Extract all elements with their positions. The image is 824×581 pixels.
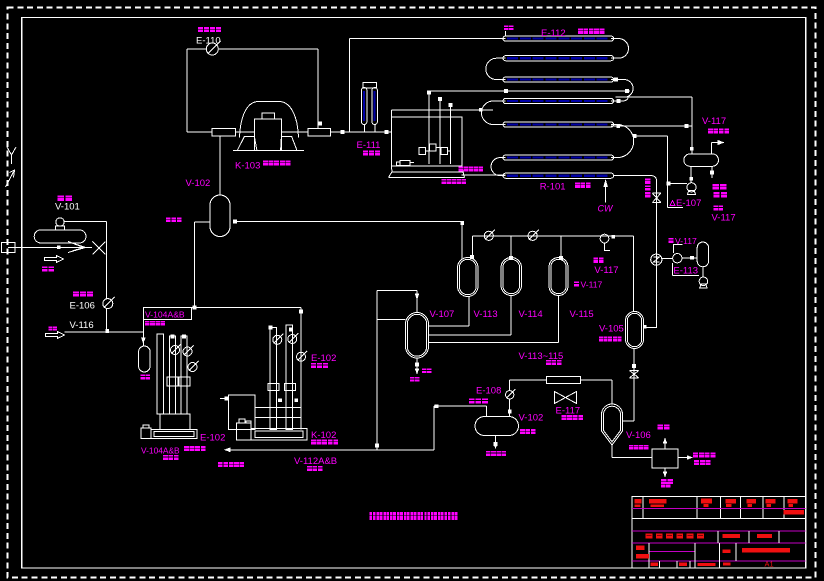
wire E-113 bottom (702, 267, 704, 277)
instrument V-104 1 (171, 346, 180, 355)
label K-103 chinese (263, 161, 268, 166)
label product 1 (693, 453, 698, 458)
wire E-117 header (510, 379, 547, 381)
nozzle cone on V-101 (68, 242, 86, 253)
wire raw gas stub (505, 31, 507, 36)
svg-text:CW: CW (598, 204, 614, 214)
instrument E-110 (206, 43, 218, 55)
blower circle-Z (651, 254, 662, 265)
label product 2 (694, 460, 699, 465)
instrument E-106 (103, 299, 113, 309)
wire row5 to V-117 y=126 (611, 125, 692, 127)
wire ethylene feed y=331.8 (65, 331, 144, 333)
wire V-102 left nozzle down (194, 221, 210, 223)
mid-low band (648, 543, 650, 561)
vessel V-105 (626, 312, 644, 349)
wire E-111 tube stubs (363, 125, 365, 132)
svg-text:E-110: E-110 (196, 36, 221, 47)
block arrow inlet 1 (45, 256, 64, 263)
svg-text:K-102: K-102 (311, 430, 336, 441)
label initiator 1 (458, 167, 462, 172)
label separator small (520, 429, 525, 434)
instrument M (600, 234, 609, 243)
label fen li qi 2 (307, 466, 312, 471)
label ethylene small (48, 326, 52, 330)
instrument on ladder 1 (484, 231, 493, 240)
label under block arrow (42, 267, 47, 272)
valve X closed (92, 242, 105, 255)
label fen li qi (163, 455, 168, 460)
wire V-106 bottom to box (611, 445, 613, 458)
compressor K-103 dome (240, 102, 299, 138)
svg-text:E-106: E-106 (70, 301, 95, 312)
wire coil header to V-117 y=97.2 (616, 96, 692, 98)
wire ladder top (471, 236, 473, 257)
svg-text:V-117: V-117 (702, 116, 726, 127)
wire reactor feed (462, 174, 506, 176)
svg-text:V-113: V-113 (474, 309, 498, 320)
title block hline white (632, 517, 806, 519)
svg-text:V-107: V-107 (430, 309, 455, 320)
wire box vent (664, 442, 666, 450)
label fazi (593, 258, 598, 263)
wire loop left vertical (186, 49, 188, 132)
wire V-117 bottom to pump E-107 (690, 166, 692, 182)
K-102 crank box (229, 395, 255, 430)
wire to E-112 coil inlet (350, 38, 506, 40)
pump under E-113 (699, 277, 708, 286)
valve on CW line (652, 193, 660, 202)
wire recycle into V-102 (237, 221, 462, 223)
label condensate 2 (714, 192, 720, 198)
instrument V-104 2 (183, 347, 192, 356)
exchanger E-117 (547, 377, 581, 384)
bottom band (648, 561, 650, 568)
university row (717, 531, 719, 543)
wire header y=307.3 (191, 306, 301, 308)
label cooling water vertical (645, 179, 650, 184)
wire V-117 vapor outlet (710, 143, 712, 154)
svg-text:V-117: V-117 (675, 236, 697, 246)
junction (318, 122, 322, 126)
wire waste (664, 468, 666, 474)
label E-111 chinese (363, 151, 368, 156)
wire couplings (235, 131, 254, 133)
instrument K-102 1 (273, 335, 282, 344)
K-103 left foot (237, 137, 257, 151)
wire to steam drum (142, 320, 144, 347)
instrument K-102 2 (288, 335, 297, 344)
wire V-105 bottom (633, 349, 635, 422)
K-103 ground line (233, 150, 304, 152)
vessel E-113 (697, 242, 708, 267)
V-104 pump rods (170, 336, 176, 414)
label to flare (410, 377, 414, 382)
V-101 top instrument (56, 218, 64, 226)
label yi xi ji (311, 363, 316, 368)
vessel V-117 (684, 154, 719, 166)
label polymer (218, 462, 223, 467)
label initiator 2 (442, 179, 446, 184)
svg-text:V-101: V-101 (55, 202, 80, 213)
injector needles (428, 91, 430, 164)
wire product out (678, 457, 688, 459)
svg-text:A1: A1 (765, 560, 774, 569)
svg-text:V-117: V-117 (581, 280, 603, 290)
exchanger E-111 tubes (362, 88, 367, 125)
svg-text:V-114: V-114 (519, 309, 543, 320)
border symbol arrow (6, 170, 15, 187)
label V-106 chinese (629, 445, 633, 450)
coil bend left rows4-5 (481, 101, 505, 125)
label under box (145, 321, 150, 326)
coil bend right row3 outlet (semicircle) (611, 80, 633, 98)
coil bend right rows1-2 (611, 39, 629, 59)
K-102 base (251, 429, 307, 441)
coil bend left rows2-3 (486, 58, 506, 79)
instrument V-104 3 (188, 363, 197, 372)
boxed label V-104A&B (143, 307, 191, 319)
pump E-107 (687, 183, 696, 192)
K-103 cylinder (255, 119, 282, 151)
label waste (661, 479, 667, 484)
label condensate 1 (713, 184, 719, 190)
wire discharge riser x=349.5 (349, 39, 351, 132)
label E-112 chinese (578, 29, 583, 34)
svg-text:V-102: V-102 (519, 413, 544, 424)
svg-text:V-113~115: V-113~115 (519, 351, 564, 362)
coupling box left K-103 (212, 128, 235, 136)
arrowhead down into steam drum (141, 338, 146, 345)
svg-text:E-112: E-112 (541, 28, 566, 39)
wire from V-101 instrument to right (64, 221, 106, 223)
wire K-102 discharge (228, 449, 434, 451)
svg-text:V-117: V-117 (594, 265, 618, 276)
label steam (141, 375, 145, 380)
wire drop into V-113 top (461, 222, 463, 260)
svg-text:E-113: E-113 (673, 266, 698, 277)
wire CW arrow (605, 186, 607, 203)
product box (652, 449, 678, 468)
wire V-117 bottom right stub (711, 166, 713, 178)
svg-text:V-102: V-102 (186, 178, 211, 189)
svg-text:V-115: V-115 (570, 309, 594, 320)
svg-text:E-102: E-102 (200, 432, 225, 443)
wire E-108 drop (509, 380, 511, 391)
V-104 column (157, 334, 164, 414)
svg-text:V-104A&B: V-104A&B (145, 309, 185, 319)
vessel V-115 (549, 258, 568, 296)
instrument circle (673, 254, 682, 263)
drawing title text (370, 512, 376, 520)
wire into V-106 (623, 420, 635, 422)
junction drum riser (375, 443, 379, 447)
label R-101 chinese (575, 183, 580, 188)
title block red header cells (635, 499, 642, 503)
valve under V-105 (630, 371, 639, 378)
wire from coil bend to E-107 header (634, 135, 668, 137)
flash drum (406, 313, 429, 359)
junction at V-102 inlet (233, 220, 237, 224)
svg-text:V-112A&B: V-112A&B (294, 456, 337, 467)
wire to E-113 vessel (682, 257, 697, 259)
V-104 base (160, 414, 190, 430)
butterfly valve E-117 (555, 392, 566, 404)
instrument E-108 (506, 391, 514, 399)
svg-text:V-105: V-105 (599, 323, 624, 334)
wire drum bottom flare (416, 358, 418, 371)
wire loop right vertical (317, 49, 319, 128)
K-102 rungs (255, 407, 301, 409)
svg-text:E-108: E-108 (476, 385, 501, 396)
wire K-103 discharge (331, 131, 392, 133)
title block outer (632, 496, 806, 568)
wire R-101 outlet row7 to riser (614, 175, 653, 177)
label E-117 chinese (562, 415, 567, 420)
steam drum (139, 346, 151, 372)
svg-text:E-102: E-102 (311, 353, 336, 364)
wire separator bottoms to flash drum (468, 297, 470, 327)
wire drum left nozzle (377, 319, 406, 321)
wire vessel bottom (495, 436, 497, 446)
wire header turns down x=301 (300, 307, 302, 429)
label recycle small (422, 369, 426, 374)
wire row4 joins header (611, 97, 628, 101)
vessel V-114 (501, 258, 522, 296)
wire line y=110 (391, 109, 493, 111)
svg-text:V-116: V-116 (70, 320, 94, 331)
label vent (658, 425, 664, 430)
injector small pump bottom-left (400, 161, 410, 166)
wire V-105 side nozzle (643, 325, 647, 329)
label V-117 chinese (708, 129, 713, 134)
label to flasher (486, 451, 491, 456)
svg-text:R-101: R-101 (540, 182, 566, 193)
heat exchanger E-112 / reactor R-101 coil tubes (503, 36, 614, 41)
tray of injection box (392, 171, 463, 173)
label above E-110 (198, 27, 203, 32)
wire feed line y=247 (8, 246, 92, 248)
wire pump suction (667, 182, 687, 184)
instrument E-102 (297, 352, 306, 361)
wire down to V-105 (633, 236, 635, 312)
vessel V-101 (34, 230, 86, 243)
vessel V-106 (602, 404, 623, 445)
title block magenta lines (632, 508, 806, 510)
border symbol Y (7, 147, 16, 155)
coil bend right rows5-6 (611, 125, 634, 158)
label raw gas (504, 26, 508, 31)
K-102 pump rods (270, 328, 277, 430)
wire E-108 left feed (486, 406, 488, 417)
wire between circles (662, 258, 673, 260)
label V-105 chinese (599, 337, 603, 342)
junction V-102 drop (192, 305, 196, 309)
title block verticals top band (642, 496, 644, 518)
svg-text:K-103: K-103 (235, 161, 260, 172)
vessel V-102 (210, 195, 230, 237)
label cooling water (469, 398, 475, 403)
vessel E-108/V-102 (475, 417, 519, 436)
coil bend left rows6-7 (491, 158, 506, 176)
label recycle gas (166, 217, 171, 222)
wire E-110 loop top (187, 48, 207, 50)
label separators (546, 360, 551, 365)
label fa zi (714, 205, 718, 210)
wire drum feed (376, 290, 378, 450)
wire return line y=91.1 (429, 90, 630, 92)
wire K-103 suction from V-102 (219, 136, 221, 195)
K-103 right foot (281, 137, 297, 151)
wire vertical x=106.6 (106, 222, 108, 299)
vessel V-113 (458, 258, 479, 297)
label above title block (661, 482, 665, 487)
svg-text:E-117: E-117 (556, 406, 581, 417)
svg-text:V-106: V-106 (626, 430, 651, 441)
label under K-102 (311, 440, 316, 445)
svg-text:V-117: V-117 (712, 212, 736, 223)
label above E-106 (73, 292, 79, 297)
instrument on ladder 2 (528, 231, 537, 240)
svg-text:V-104A&B: V-104A&B (141, 445, 180, 455)
coupling box right K-103 (308, 128, 331, 136)
block arrow inlet ethylene (46, 332, 65, 339)
svg-text:E-111: E-111 (357, 140, 381, 151)
injection station box (391, 117, 462, 166)
border connection square (2, 243, 16, 253)
wire V-117 inlet vertical (691, 97, 693, 154)
label above V-101 (58, 196, 65, 202)
